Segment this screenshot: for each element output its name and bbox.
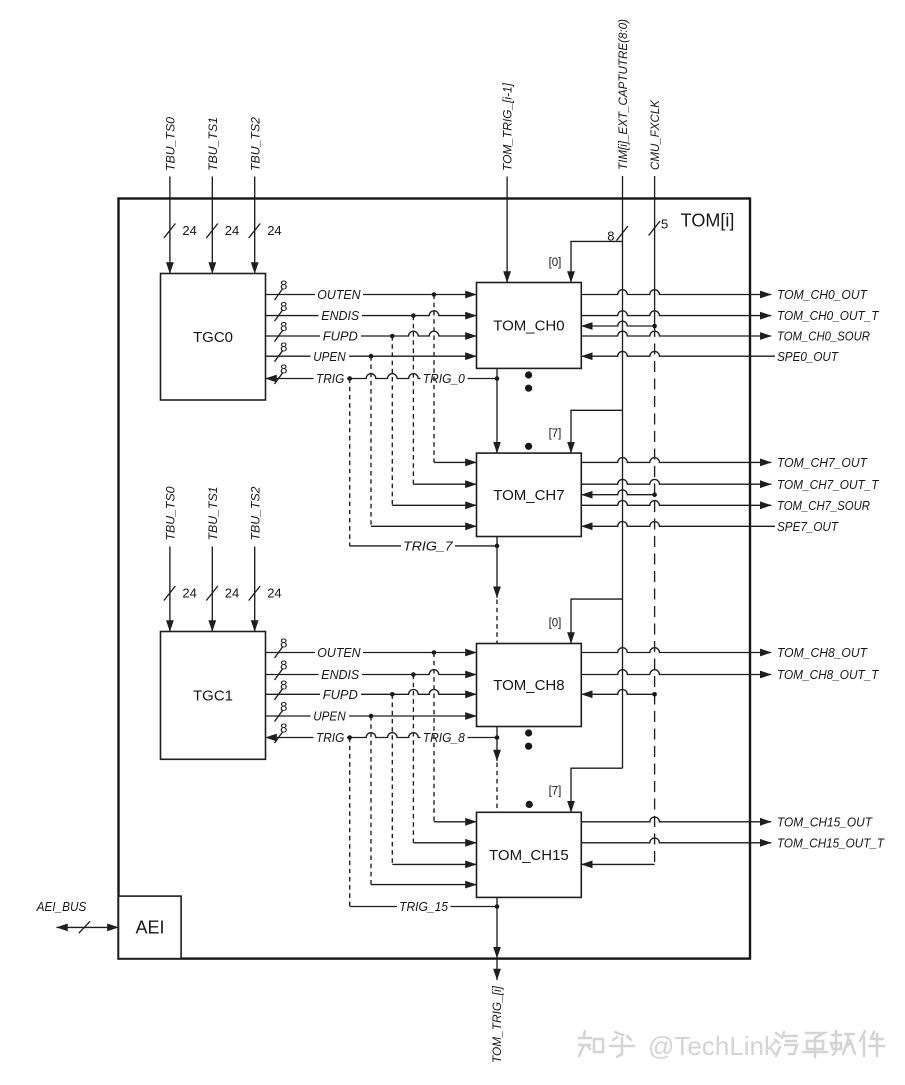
watermark 知乎 @TechLink汽车软件 bbox=[579, 1031, 884, 1061]
svg-text:8: 8 bbox=[280, 339, 287, 354]
svg-text:TOM_CH15_OUT_T: TOM_CH15_OUT_T bbox=[777, 835, 885, 850]
svg-text:ENDIS: ENDIS bbox=[321, 308, 359, 323]
svg-text:TBU_TS1: TBU_TS1 bbox=[206, 117, 220, 171]
wire TRIG / TRIG_8 into TGC1 (8-bit, hops, junction) bbox=[266, 721, 500, 745]
svg-text:TRIG_15: TRIG_15 bbox=[399, 899, 449, 914]
input TBU_TS0 (TGC0) with 24-bit slash bbox=[164, 117, 197, 274]
output TOM_CH15_OUT_T from TOM_CH15 bbox=[581, 835, 885, 850]
svg-text:UPEN: UPEN bbox=[313, 709, 346, 724]
svg-text:[7]: [7] bbox=[549, 428, 562, 440]
svg-text:8: 8 bbox=[280, 299, 287, 314]
svg-text:TBU_TS2: TBU_TS2 bbox=[248, 486, 262, 540]
wire trigger chain TOM_CH0 -> TOM_CH7 bbox=[496, 368, 498, 453]
block TOM_CH0 bbox=[477, 283, 582, 369]
input TIM[i]_EXT_CAPTUTRE(8:0) vertical bus bbox=[607, 19, 630, 768]
svg-text:8: 8 bbox=[280, 699, 287, 714]
svg-text:TRIG_8: TRIG_8 bbox=[423, 730, 466, 745]
block TGC1 bbox=[161, 632, 266, 760]
svg-text:24: 24 bbox=[182, 223, 196, 238]
wire CMU_FXCLK tap into TOM_CH8 bbox=[581, 690, 657, 697]
bus AEI_BUS (double arrow with slash) bbox=[36, 899, 119, 933]
dashed feed OUTEN TGC0->TOM_CH7 bbox=[434, 295, 477, 463]
svg-text:TRIG: TRIG bbox=[316, 730, 344, 745]
svg-text:5: 5 bbox=[661, 217, 668, 232]
ellipsis dots channels 1..6 bbox=[525, 371, 532, 450]
svg-text:24: 24 bbox=[225, 223, 239, 238]
wire CMU_FXCLK tap into TOM_CH7 bbox=[581, 490, 657, 497]
svg-text:TOM_TRIG_[i-1]: TOM_TRIG_[i-1] bbox=[501, 82, 515, 171]
svg-text:@TechLink: @TechLink bbox=[648, 1031, 778, 1061]
wire CMU_FXCLK corner into TOM_CH15 bbox=[581, 863, 654, 865]
output TOM_CH0_OUT_T from TOM_CH0 bbox=[581, 308, 879, 323]
output TOM_CH7_SOUR from TOM_CH7 bbox=[581, 498, 870, 513]
svg-text:TOM[i]: TOM[i] bbox=[681, 211, 735, 231]
svg-text:TRIG: TRIG bbox=[316, 371, 344, 386]
input TBU_TS2 (TGC0) with 24-bit slash bbox=[248, 117, 281, 274]
dashed feed UPEN TGC1->TOM_CH15 bbox=[371, 716, 477, 885]
output TOM_CH15_OUT from TOM_CH15 bbox=[581, 814, 873, 829]
block TGC0 bbox=[161, 274, 266, 401]
svg-text:TOM_CH15_OUT: TOM_CH15_OUT bbox=[777, 814, 873, 829]
svg-text:TOM_CH15: TOM_CH15 bbox=[489, 847, 569, 864]
label TOM[i] bbox=[681, 211, 735, 231]
wire TRIG / TRIG_0 into TGC0 (8-bit, hops, junction) bbox=[266, 362, 500, 386]
svg-text:8: 8 bbox=[280, 658, 287, 673]
wire UPEN TGC0->TOM_CH0 (8-bit, junction) bbox=[266, 339, 477, 363]
input CMU_FXCLK vertical (solid then dashed) bbox=[648, 99, 668, 864]
wire UPEN TGC1->TOM_CH8 (8-bit, junction) bbox=[266, 699, 477, 723]
svg-text:TBU_TS0: TBU_TS0 bbox=[164, 117, 178, 171]
svg-text:24: 24 bbox=[267, 223, 281, 238]
wire FUPD TGC1->TOM_CH8 (8-bit, junction) bbox=[266, 678, 477, 702]
dashed feed FUPD TGC1->TOM_CH15 bbox=[392, 694, 476, 864]
svg-text:8: 8 bbox=[280, 319, 287, 334]
svg-text:TOM_CH7_OUT_T: TOM_CH7_OUT_T bbox=[777, 477, 879, 492]
wire ENDIS TGC1->TOM_CH8 (8-bit, junction) bbox=[266, 658, 477, 682]
output TOM_CH7_OUT_T from TOM_CH7 bbox=[581, 477, 879, 492]
wire CMU_FXCLK tap into TOM_CH0 bbox=[581, 321, 657, 328]
svg-text:TIM[i]_EXT_CAPTUTRE(8:0): TIM[i]_EXT_CAPTUTRE(8:0) bbox=[616, 19, 630, 170]
output TOM_CH8_OUT_T from TOM_CH8 bbox=[581, 667, 879, 682]
svg-text:8: 8 bbox=[280, 721, 287, 736]
svg-text:TOM_CH7_SOUR: TOM_CH7_SOUR bbox=[777, 498, 870, 513]
output TOM_CH0_OUT from TOM_CH0 bbox=[581, 287, 868, 302]
svg-text:TBU_TS0: TBU_TS0 bbox=[164, 486, 178, 540]
svg-text:8: 8 bbox=[280, 636, 287, 651]
svg-text:SPE0_OUT: SPE0_OUT bbox=[777, 349, 839, 364]
block AEI bbox=[119, 896, 182, 959]
svg-text:FUPD: FUPD bbox=[323, 687, 358, 702]
svg-text:AEI_BUS: AEI_BUS bbox=[36, 899, 87, 914]
svg-text:TOM_CH8_OUT_T: TOM_CH8_OUT_T bbox=[777, 667, 879, 682]
svg-text:TRIG_7: TRIG_7 bbox=[403, 539, 454, 554]
svg-text:TBU_TS2: TBU_TS2 bbox=[248, 117, 262, 171]
svg-text:OUTEN: OUTEN bbox=[317, 287, 361, 302]
svg-text:24: 24 bbox=[182, 586, 196, 601]
wire trigger chain TOM_CH8 -> TOM_CH15 (arrow then dashed) bbox=[496, 727, 498, 813]
wire TRIG_15 return (dashed vertical + label) bbox=[350, 738, 500, 915]
svg-text:[0]: [0] bbox=[549, 257, 562, 269]
block TOM_CH15 bbox=[477, 812, 582, 897]
branch TIM [0] into TOM_CH0 bbox=[549, 241, 623, 282]
input TBU_TS1 (TGC0) with 24-bit slash bbox=[206, 117, 239, 274]
wire TRIG_7 return (dashed vertical + label) bbox=[350, 379, 500, 554]
output TOM_TRIG_[i] (chain exit, double arrowheads, rotated label) bbox=[490, 897, 504, 1063]
svg-text:TOM_CH0: TOM_CH0 bbox=[493, 318, 564, 335]
svg-text:8: 8 bbox=[280, 362, 287, 377]
svg-text:8: 8 bbox=[280, 278, 287, 293]
output TOM_CH7_OUT from TOM_CH7 bbox=[581, 455, 868, 470]
svg-text:TOM_CH0_OUT_T: TOM_CH0_OUT_T bbox=[777, 308, 879, 323]
module frame TOM[i] bbox=[119, 199, 751, 959]
svg-text:UPEN: UPEN bbox=[313, 349, 346, 364]
output TOM_CH8_OUT from TOM_CH8 bbox=[581, 645, 868, 660]
svg-text:TOM_TRIG_[i]: TOM_TRIG_[i] bbox=[490, 985, 504, 1063]
input TBU_TS0 (TGC1) with 24-bit slash bbox=[164, 486, 197, 631]
input TBU_TS1 (TGC1) with 24-bit slash bbox=[206, 487, 239, 632]
svg-text:[7]: [7] bbox=[549, 786, 562, 798]
output TOM_CH0_SOUR from TOM_CH0 bbox=[581, 329, 870, 344]
block TOM_CH8 bbox=[477, 644, 582, 727]
branch TIM [0] into TOM_CH8 bbox=[549, 599, 623, 643]
wire trigger chain TOM_CH7 -> TOM_CH8 (arrow then dashed) bbox=[496, 537, 498, 644]
svg-text:TBU_TS1: TBU_TS1 bbox=[206, 487, 220, 541]
svg-text:24: 24 bbox=[225, 586, 239, 601]
svg-text:TOM_CH8: TOM_CH8 bbox=[493, 677, 564, 694]
dashed feed ENDIS TGC0->TOM_CH7 bbox=[413, 316, 476, 485]
dashed feed FUPD TGC0->TOM_CH7 bbox=[392, 336, 476, 505]
dashed feed OUTEN TGC1->TOM_CH15 bbox=[434, 653, 477, 822]
dashed feed UPEN TGC0->TOM_CH7 bbox=[371, 356, 477, 526]
wire OUTEN TGC1->TOM_CH8 (8-bit, junction) bbox=[266, 636, 477, 660]
svg-text:TOM_CH7: TOM_CH7 bbox=[493, 487, 564, 504]
ellipsis dots channels 9..14 bbox=[525, 729, 533, 808]
svg-text:ENDIS: ENDIS bbox=[321, 667, 359, 682]
branch TIM [7] into TOM_CH7 bbox=[549, 410, 623, 453]
svg-text:TGC1: TGC1 bbox=[193, 688, 233, 705]
svg-text:[0]: [0] bbox=[549, 618, 562, 630]
svg-text:OUTEN: OUTEN bbox=[317, 645, 361, 660]
wire FUPD TGC0->TOM_CH0 (8-bit, junction) bbox=[266, 319, 477, 343]
svg-text:CMU_FXCLK: CMU_FXCLK bbox=[648, 99, 662, 170]
svg-text:TOM_CH7_OUT: TOM_CH7_OUT bbox=[777, 455, 868, 470]
input SPE0_OUT into TOM_CH0 bbox=[581, 349, 839, 364]
wire OUTEN TGC0->TOM_CH0 (8-bit, junction) bbox=[266, 278, 477, 302]
input TOM_TRIG_[i-1] bbox=[501, 82, 515, 282]
svg-text:TGC0: TGC0 bbox=[193, 329, 233, 346]
svg-text:FUPD: FUPD bbox=[323, 329, 358, 344]
svg-text:TOM_CH8_OUT: TOM_CH8_OUT bbox=[777, 645, 868, 660]
block TOM_CH7 bbox=[477, 453, 582, 536]
input TBU_TS2 (TGC1) with 24-bit slash bbox=[248, 486, 281, 631]
svg-text:AEI: AEI bbox=[135, 917, 164, 937]
dashed feed ENDIS TGC1->TOM_CH15 bbox=[413, 675, 476, 843]
input SPE7_OUT into TOM_CH7 bbox=[581, 519, 839, 534]
svg-text:TRIG_0: TRIG_0 bbox=[423, 371, 466, 386]
branch TIM [7] into TOM_CH15 bbox=[549, 768, 623, 812]
wire ENDIS TGC0->TOM_CH0 (8-bit, junction) bbox=[266, 299, 477, 323]
svg-text:24: 24 bbox=[267, 586, 281, 601]
svg-text:TOM_CH0_SOUR: TOM_CH0_SOUR bbox=[777, 329, 870, 344]
svg-text:SPE7_OUT: SPE7_OUT bbox=[777, 519, 839, 534]
svg-text:TOM_CH0_OUT: TOM_CH0_OUT bbox=[777, 287, 868, 302]
svg-text:8: 8 bbox=[280, 678, 287, 693]
